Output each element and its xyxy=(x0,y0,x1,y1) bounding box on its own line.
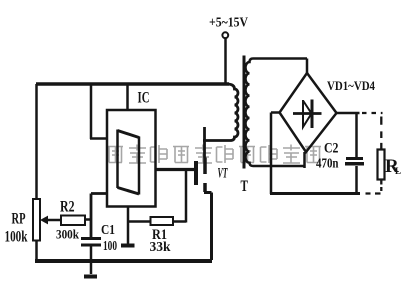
wire bridge bottom vertex down xyxy=(303,152,306,168)
svg-text:VT: VT xyxy=(218,166,228,182)
resistor R1 xyxy=(128,170,186,226)
svg-text:C2: C2 xyxy=(324,141,339,157)
bridge rectifier VD1~VD4 diamond xyxy=(280,73,337,152)
resistor R2 xyxy=(61,216,91,226)
potentiometer RP xyxy=(33,199,40,241)
capacitor C2 xyxy=(345,113,364,194)
wire RP bottom lead xyxy=(35,241,38,261)
ground bar (IC pin) xyxy=(121,244,135,248)
IC box U1 xyxy=(107,110,156,207)
gate plate xyxy=(194,161,198,185)
wire IC bottom ground pin xyxy=(127,207,130,244)
svg-text:100k: 100k xyxy=(5,229,28,246)
wire left vertical xyxy=(35,84,38,199)
drain stub and lead xyxy=(203,127,206,158)
svg-text:T: T xyxy=(241,178,249,195)
wire top right rail from bridge xyxy=(337,112,360,115)
svg-text:100: 100 xyxy=(103,238,117,253)
power terminal +5~15V xyxy=(222,32,228,84)
dashed wires to RL bottom xyxy=(366,181,382,194)
dashed wires to RL top xyxy=(362,113,383,149)
transformer T primary winding xyxy=(203,84,238,141)
svg-text:33k: 33k xyxy=(150,240,171,255)
source lead xyxy=(204,193,212,261)
capacitor C1 xyxy=(81,239,101,275)
wire IC lower-left pin to R2/C1 node xyxy=(91,194,107,238)
RP wiper arrow xyxy=(40,216,61,225)
svg-text:R2: R2 xyxy=(60,199,75,216)
wire bottom rail left xyxy=(35,259,212,263)
wire bottom right rail xyxy=(270,192,360,195)
svg-text:RP: RP xyxy=(12,211,26,228)
wire IC top pin xyxy=(126,84,129,110)
diode inside bridge xyxy=(293,100,322,129)
wire gate from IC right pin xyxy=(156,168,195,171)
transformer core xyxy=(243,56,246,169)
ground below C1 xyxy=(84,275,97,279)
load resistor RL xyxy=(378,150,385,180)
wire secondary top to bridge xyxy=(306,59,309,74)
svg-text:+5~15V: +5~15V xyxy=(209,16,248,31)
svg-text:300k: 300k xyxy=(56,227,80,242)
svg-text:470n: 470n xyxy=(316,157,339,172)
wire top rail xyxy=(36,82,229,85)
svg-text:VD1~VD4: VD1~VD4 xyxy=(327,79,376,93)
svg-text:IC: IC xyxy=(138,90,150,107)
channel segments xyxy=(203,158,207,175)
wire branch to IC pin left upper xyxy=(90,84,107,139)
svg-text:C1: C1 xyxy=(101,222,115,237)
IC internal parallelogram xyxy=(118,130,140,195)
wire bridge left vertex to minus rail xyxy=(271,113,280,195)
transistor VT (MOSFET) xyxy=(196,127,212,260)
svg-text:L: L xyxy=(395,166,401,176)
transformer T secondary winding xyxy=(246,59,308,167)
